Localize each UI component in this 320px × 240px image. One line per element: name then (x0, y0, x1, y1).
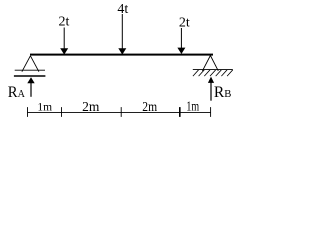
reaction arrow RA (27, 77, 34, 97)
svg-text:2t: 2t (179, 16, 190, 31)
dimension tick 6m (210, 107, 212, 117)
support B hatching (193, 70, 233, 76)
dimension tick 0m (27, 107, 29, 117)
beam (30, 54, 213, 56)
support A lower ground line (14, 75, 46, 77)
support B ground line (193, 69, 233, 71)
dimension tick 1m (61, 107, 63, 117)
reaction arrow RB (208, 77, 214, 101)
svg-text:2m: 2m (82, 99, 100, 114)
svg-text:RB: RB (214, 84, 231, 101)
svg-text:2m: 2m (142, 99, 157, 114)
svg-text:1m: 1m (37, 102, 52, 114)
dimension line (27, 111, 210, 113)
support A upper ground line (15, 69, 45, 71)
svg-text:1m: 1m (186, 98, 199, 114)
support B triangle (pin) (202, 56, 218, 71)
dimension tick 5m (179, 107, 181, 117)
svg-text:4t: 4t (117, 2, 128, 17)
support A triangle (roller) (22, 56, 39, 72)
load arrow P1 2t (60, 28, 68, 55)
svg-text:2t: 2t (59, 15, 70, 30)
svg-text:RA: RA (8, 83, 25, 101)
load arrow P3 2t (177, 28, 185, 54)
load arrow P2 4t (118, 14, 126, 55)
dimension tick 3m (120, 107, 122, 117)
